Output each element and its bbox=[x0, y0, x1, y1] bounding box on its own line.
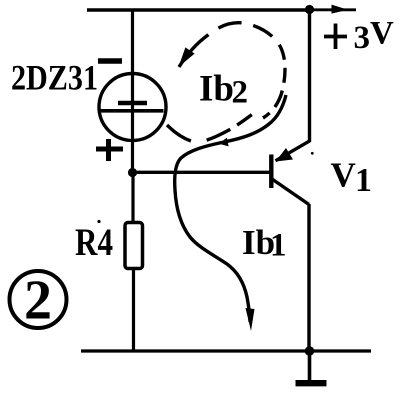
emitter arrowhead (PNP, points into base) bbox=[276, 148, 294, 162]
svg-text:3: 3 bbox=[354, 20, 371, 56]
wire: top +3V rail bbox=[87, 8, 310, 11]
current path Ib1: solid curve bbox=[175, 95, 286, 322]
speck (scan artifact) near R4 bbox=[97, 220, 100, 223]
collector diagonal bbox=[272, 179, 309, 205]
resistor R4 body bbox=[125, 223, 143, 269]
svg-text:1: 1 bbox=[355, 162, 372, 199]
svg-text:1: 1 bbox=[270, 228, 287, 264]
polarity plus sign bbox=[96, 139, 123, 161]
transistor V1 bbox=[271, 141, 310, 205]
figure number (2): circle bbox=[10, 271, 67, 328]
svg-text:2: 2 bbox=[232, 75, 249, 111]
node: top-right junction bbox=[305, 5, 314, 14]
node: base junction dot bbox=[128, 168, 137, 177]
wire: bottom ground rail bbox=[81, 349, 371, 352]
wire: base node to resistor top bbox=[131, 172, 134, 224]
zener diode: short electrode bar bbox=[118, 101, 147, 106]
Ib1 mid arrowhead (pointing down-left) bbox=[219, 138, 229, 147]
current path Ib2: dashed loop, upper arc bbox=[179, 23, 285, 118]
speck (scan artifact) near emitter bbox=[311, 152, 314, 155]
Ib1 end arrowhead (pointing down) bbox=[246, 308, 255, 331]
node: collector/ground junction dot bbox=[305, 346, 315, 356]
polarity minus sign bbox=[98, 58, 122, 64]
svg-text:2DZ31: 2DZ31 bbox=[11, 58, 98, 98]
wire: left vertical (rail to base node) bbox=[131, 10, 134, 172]
wire: collector vertical to ground rail bbox=[307, 204, 310, 351]
label V1 bbox=[331, 156, 373, 200]
base bar bbox=[269, 155, 273, 189]
+3V supply arrow bbox=[310, 5, 356, 14]
wire: resistor bottom to ground rail bbox=[132, 267, 135, 351]
current path Ib2: dashed loop, bottom arc bbox=[167, 115, 252, 142]
zener diode: long electrode line bbox=[100, 109, 164, 113]
ground symbol bbox=[296, 351, 327, 383]
label Ib1 bbox=[242, 223, 287, 264]
svg-text:2: 2 bbox=[24, 270, 52, 332]
zener diode 2DZ31: circle body bbox=[99, 74, 166, 141]
label +3V bbox=[324, 16, 394, 57]
svg-text:R4: R4 bbox=[75, 221, 113, 264]
svg-text:V: V bbox=[331, 156, 356, 195]
wire: base horizontal bbox=[133, 171, 270, 174]
svg-text:V: V bbox=[370, 16, 394, 52]
emitter diagonal bbox=[276, 141, 310, 161]
svg-text:Ib: Ib bbox=[199, 69, 234, 110]
label Ib2 bbox=[199, 69, 248, 111]
wire: emitter vertical from top junction bbox=[308, 10, 311, 143]
Ib2 loop arrowhead (upper-left, pointing down-left) bbox=[179, 47, 195, 67]
